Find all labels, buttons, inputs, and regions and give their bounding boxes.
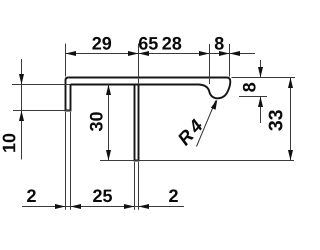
label 30	[90, 112, 103, 131]
arrow 29 left	[66, 51, 77, 56]
label 10	[3, 134, 16, 152]
R4 leader line	[197, 101, 216, 147]
R4 leader arrowhead	[211, 99, 218, 109]
arrow 2 left (outside pointing right)	[55, 204, 66, 209]
top dimension line	[66, 53, 256, 55]
extension line top/bottom at x=138.3	[138, 44, 140, 85]
extension line at x=229.6	[229, 44, 231, 77]
dimension line 33	[290, 78, 292, 161]
label 8 top	[215, 37, 224, 50]
arrow 29 right	[128, 51, 139, 56]
label 65	[139, 37, 158, 50]
right extension line y=78	[232, 77, 296, 79]
arrow 33 top	[288, 78, 293, 89]
label R4	[177, 118, 204, 146]
dimension line 30	[108, 85, 110, 161]
profile middle leg	[135, 85, 139, 161]
extension line top at x=65.5	[65, 44, 67, 77]
label 25	[93, 189, 112, 202]
bottom dimension line	[22, 206, 184, 208]
label 28	[162, 37, 181, 50]
profile left leg	[66, 80, 71, 111]
arrow 8 right down	[258, 67, 263, 78]
arrow 30 top	[106, 85, 111, 96]
dimension 8 right upper segment	[260, 60, 262, 78]
arrow 65 right (inside pointing right)	[219, 51, 230, 56]
bottom extension line y=160.4	[100, 160, 294, 162]
label 33	[269, 110, 283, 130]
right extension line y=96.8	[239, 96, 267, 98]
bottom extension pair middle leg	[135, 162, 139, 210]
arrow 25 left	[71, 204, 82, 209]
left extension line y=85	[12, 84, 71, 86]
arrow 10 bottom (up)	[19, 111, 24, 122]
arrow 28 left	[139, 51, 150, 56]
arrow 33 bottom	[288, 150, 293, 161]
bottom extension pair left leg	[66, 112, 71, 210]
label 8 right	[243, 83, 256, 92]
left extension line y=110.5	[13, 110, 71, 112]
arrow 30 bottom	[106, 150, 111, 161]
label 29	[92, 37, 111, 50]
dimension line 10	[21, 59, 23, 160]
label 2 right	[169, 189, 178, 202]
arrow 8 top outside pointing left	[230, 51, 241, 56]
label 2 left	[27, 189, 36, 202]
arrow 8 right up	[258, 97, 263, 108]
profile outline: top flange with right bead	[66, 78, 231, 99]
arrow 2 right (outside pointing left)	[139, 204, 150, 209]
arrow 25 right	[124, 204, 135, 209]
extension line at x=209	[209, 44, 211, 84]
dimension 8 right lower segment	[260, 97, 262, 124]
arrow 28 right	[199, 51, 210, 56]
arrow 10 top (down)	[19, 74, 24, 85]
